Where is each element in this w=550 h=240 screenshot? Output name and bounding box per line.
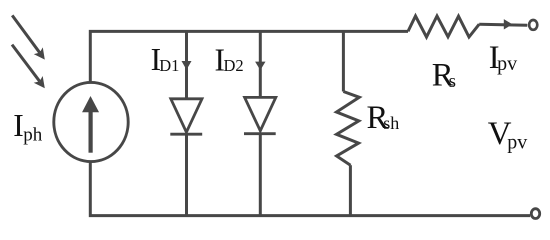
terminal positive (529, 20, 537, 30)
wire Rsh branch top (342, 31, 345, 91)
diode D2 (244, 97, 276, 133)
svg-text:ID1: ID1 (151, 42, 180, 77)
resistor Rs (408, 16, 479, 37)
terminal negative (531, 209, 539, 219)
current arrow ID2 (255, 62, 265, 71)
wire to output terminal (479, 23, 527, 27)
current source arrow (82, 96, 99, 153)
resistor Rsh (337, 92, 360, 166)
wire diode D1 branch bottom (185, 134, 188, 215)
current source Iph (54, 82, 128, 161)
diode D1 (170, 99, 202, 134)
current arrow ID1 (182, 61, 192, 70)
wire top rail (90, 31, 408, 83)
svg-text:Rsh: Rsh (367, 100, 400, 136)
svg-text:Iph: Iph (13, 108, 43, 145)
svg-text:Vpv: Vpv (488, 116, 528, 153)
wire diode D2 branch bottom (259, 134, 262, 216)
svg-text:Rs: Rs (432, 58, 456, 94)
light arrow 2 (12, 45, 45, 89)
current arrow Ipv (504, 19, 513, 29)
wire Rsh branch bottom (349, 165, 352, 215)
wire diode D1 branch top (185, 31, 188, 98)
wire diode D2 branch top (259, 31, 262, 97)
svg-text:ID2: ID2 (215, 42, 244, 77)
svg-text:Ipv: Ipv (489, 40, 517, 76)
wire bottom rail (90, 161, 530, 216)
light arrow 1 (12, 15, 45, 59)
